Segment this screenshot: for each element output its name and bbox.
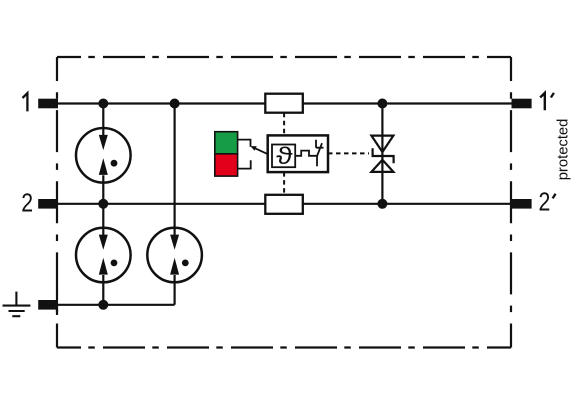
border patch below ground terminal [56, 310, 58, 316]
enclosure dash-dot border top [57, 56, 511, 58]
svg-text:2: 2 [21, 188, 33, 218]
LED green indicator [215, 132, 238, 154]
junction dot line2/diode [377, 199, 387, 209]
svg-text:2: 2 [539, 187, 551, 217]
TVS diode Z-bar [373, 148, 394, 163]
TVS diode top triangle [371, 136, 393, 152]
gas discharge tube F3 (bottom right) [147, 228, 202, 283]
svg-text:ϑ: ϑ [276, 142, 293, 169]
TVS diode bottom triangle [371, 160, 393, 172]
wire branch B vertical x=174.6 [174, 104, 176, 305]
wire branch diode x=382.4 [381, 104, 383, 204]
svg-text:protected: protected [555, 119, 571, 181]
wire line 1 (top horizontal) [58, 102, 512, 104]
terminal 1' (right) [512, 99, 532, 109]
gas discharge tube F1 (top) [76, 128, 131, 183]
resistor R2 (line 2) [265, 195, 303, 214]
junction dot line1/branchB [170, 99, 180, 109]
switch wire green contact [238, 140, 251, 147]
junction dot line1/branchA [98, 99, 108, 109]
wire line 2 (middle horizontal) [58, 203, 512, 205]
switch wire red contact [238, 160, 251, 168]
junction dot line1/diode [377, 99, 387, 109]
step impulse waveform [295, 151, 317, 156]
enclosure dash-dot border bottom [57, 346, 511, 348]
dashed link thermal box to R2 [283, 172, 285, 195]
LED red indicator [215, 154, 238, 176]
disconnect switch glyph [316, 140, 324, 166]
enclosure dash-dot border left [56, 57, 58, 348]
label 1 [23, 93, 28, 111]
junction dot ground/branchA [98, 300, 108, 310]
dashed link thermal box to diode [328, 152, 369, 154]
earth ground symbol [3, 292, 31, 317]
enclosure dash-dot border right [510, 57, 512, 348]
thermal disconnect box U1 [268, 135, 328, 172]
terminal 1 (left) [38, 99, 58, 109]
border patch above ground terminal [56, 294, 58, 301]
dashed link R1 to thermal box [283, 113, 285, 136]
label 1' [540, 93, 545, 110]
switch blade with arrow [253, 147, 268, 154]
terminal ground (left) [38, 300, 58, 310]
gas discharge tube F2 (bottom left) [76, 228, 131, 283]
wire ground line (bottom horizontal) [57, 304, 174, 306]
inner theta box [272, 145, 295, 168]
resistor R1 (line 1) [265, 94, 303, 113]
terminal 2 (left) [38, 199, 58, 209]
wire branch GDT F2 lower-left [102, 204, 104, 305]
terminal 2' (right) [512, 199, 532, 209]
junction dot line2/branchA [98, 199, 108, 209]
wire branch GDT F1 upper [102, 104, 104, 204]
